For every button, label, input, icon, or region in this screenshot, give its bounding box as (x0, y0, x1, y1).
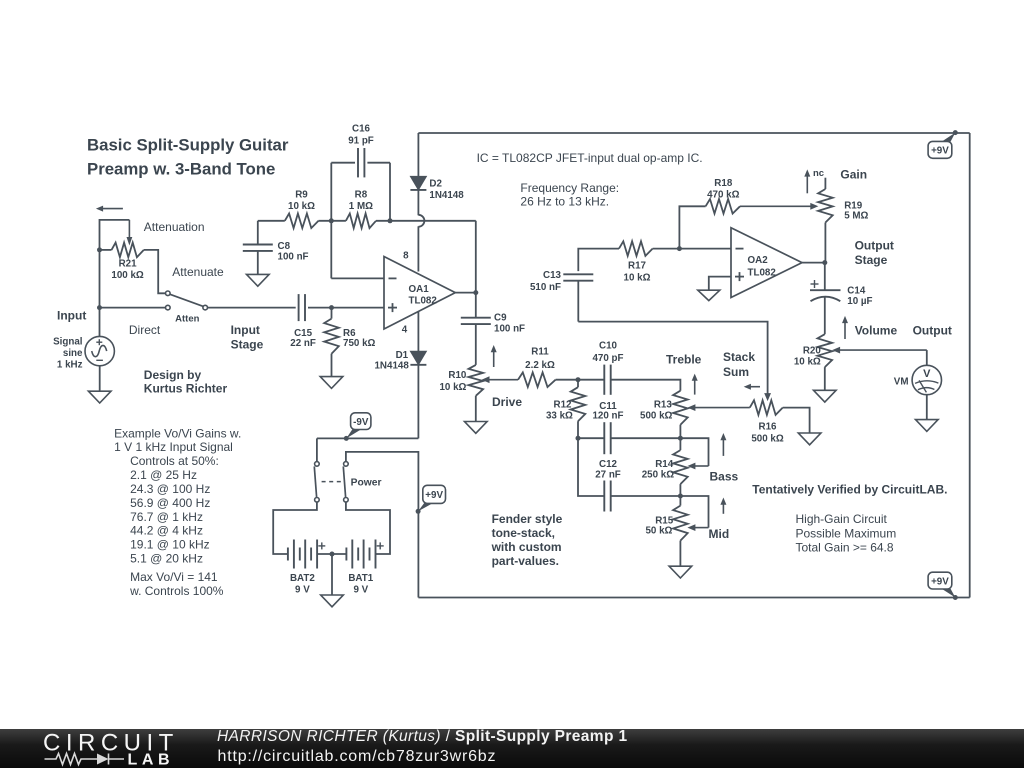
wire R21 left lead (100, 249, 112, 251)
potentiometer R21 (112, 243, 144, 258)
wire D1 cathode to -9V rail (417, 365, 419, 439)
capacitor C8 (243, 245, 273, 251)
svg-text:LAB: LAB (128, 751, 175, 768)
wire R18 left leg (679, 206, 705, 248)
label D1 (396, 350, 409, 361)
switch SW2a bottom terminal (315, 498, 320, 503)
switch SW1 blade (170, 294, 203, 306)
ground below source (88, 391, 111, 403)
potentiometer R13 (673, 391, 688, 425)
svg-text:sine: sine (63, 348, 83, 359)
svg-text:Stack: Stack (723, 350, 755, 364)
wiper arrow R21 (127, 220, 133, 246)
label R11 value 2.2 kΩ (525, 360, 555, 371)
voltmeter scale arc1 (915, 381, 938, 384)
label sine (63, 348, 83, 359)
diode D2 (410, 176, 426, 190)
label C9 value 100 nF (494, 324, 525, 335)
label fender line1 (492, 512, 563, 526)
svg-text:Kurtus Richter: Kurtus Richter (144, 381, 228, 395)
signal source plus (96, 339, 102, 345)
svg-text:470 pF: 470 pF (592, 353, 623, 364)
wire VM to ground (926, 395, 928, 420)
svg-text:91 pF: 91 pF (348, 136, 374, 147)
signal source minus (96, 359, 103, 361)
switch SW2b bottom terminal (344, 498, 349, 503)
svg-text:BAT2: BAT2 (290, 573, 315, 584)
ground below VM (916, 420, 939, 432)
wire right switch to +9V riser (346, 452, 419, 598)
label Input Stage line1 (231, 323, 260, 337)
svg-text:Output: Output (855, 238, 894, 252)
resistor R12 (571, 387, 586, 421)
op-amp OA1 triangle (384, 257, 455, 330)
wire C16 right leg (367, 163, 390, 221)
svg-text:V: V (923, 368, 931, 380)
label C8 (278, 241, 291, 252)
switch SW2b blade (343, 466, 345, 497)
resistor R11 (518, 372, 556, 387)
svg-text:R14: R14 (655, 459, 674, 470)
wire R6 top lead (331, 308, 333, 319)
svg-text:Attenuation: Attenuation (144, 220, 205, 234)
direction arrow Treble (692, 374, 698, 395)
wire D2 cathode down (417, 190, 419, 215)
label Input (57, 309, 86, 323)
wire C13 bottom leg (577, 281, 579, 322)
svg-text:10 µF: 10 µF (847, 296, 872, 307)
svg-text:D2: D2 (429, 178, 442, 189)
label R14 value 250 kΩ (642, 469, 675, 480)
label R6 (343, 328, 356, 339)
svg-text:R11: R11 (531, 347, 549, 358)
svg-text:-9V: -9V (353, 417, 369, 428)
svg-text:Input: Input (57, 309, 86, 323)
svg-text:Mid: Mid (709, 527, 730, 541)
potentiometer R10 (469, 365, 484, 396)
label example gains line1 (114, 427, 241, 441)
svg-text:+9V: +9V (425, 490, 443, 501)
ground below R6 (320, 377, 343, 389)
label Power (351, 477, 382, 488)
direction arrow Volume (842, 316, 848, 339)
battery BAT1 plus sign (377, 542, 384, 549)
label Design by (144, 368, 202, 382)
label 1 kHz (57, 360, 83, 371)
svg-text:27 nF: 27 nF (595, 469, 621, 480)
capacitor C14 curved plate (811, 297, 841, 302)
svg-text:Volume: Volume (855, 324, 898, 338)
label R18 value 470 kΩ (707, 190, 740, 201)
svg-text:R8: R8 (355, 190, 368, 201)
label BAT2 (290, 573, 315, 584)
node feedback right junction (388, 218, 393, 223)
wire R9 to C8 (257, 221, 259, 245)
wire C9 to R10 (475, 324, 477, 365)
label gain item 3 (130, 496, 210, 510)
wire into OA1 pin 8 (417, 226, 419, 271)
svg-text:OA2: OA2 (748, 255, 769, 266)
svg-text:with custom: with custom (491, 540, 562, 554)
wire source to ground (99, 366, 101, 391)
label C11 (599, 401, 617, 412)
label gain item 1 (130, 468, 197, 482)
direction arrow Stack Sum (744, 384, 760, 390)
svg-text:R13: R13 (654, 400, 673, 411)
direction arrow Drive (491, 345, 497, 367)
svg-text:R16: R16 (759, 422, 778, 433)
label Drive (492, 395, 522, 409)
svg-text:C16: C16 (352, 124, 371, 135)
wire R19 bottom lead (824, 223, 826, 263)
label R16 value 500 kΩ (751, 433, 784, 444)
label C13 (543, 270, 562, 281)
label R16 (759, 422, 778, 433)
label R12 value 33 kΩ (546, 410, 573, 421)
label controls at 50% (130, 454, 219, 468)
svg-text:9 V: 9 V (353, 585, 368, 596)
label high gain line3 (796, 540, 894, 554)
svg-text:w. Controls 100%: w. Controls 100% (129, 584, 224, 598)
svg-text:Stage: Stage (231, 337, 264, 351)
ground below R20 (814, 390, 837, 402)
label frequency range line2 (520, 195, 609, 209)
wire R14 wiper loop (680, 438, 708, 466)
svg-text:Atten: Atten (175, 313, 199, 324)
direction arrow nc (804, 169, 810, 193)
svg-text:10 kΩ: 10 kΩ (794, 356, 821, 367)
svg-text:Frequency Range:: Frequency Range: (520, 181, 619, 195)
svg-text:Power: Power (351, 477, 382, 488)
svg-text:120 nF: 120 nF (592, 410, 623, 421)
label R19 (844, 201, 863, 212)
svg-text:Design by: Design by (144, 368, 202, 382)
label R15 (655, 515, 674, 526)
ground below R10 (465, 422, 488, 434)
label C15 (294, 328, 313, 339)
svg-text:R18: R18 (714, 178, 733, 189)
label Atten (175, 313, 199, 324)
wire C16 left leg (331, 163, 355, 221)
svg-text:Basic Split-Supply Guitar: Basic Split-Supply Guitar (87, 136, 289, 155)
label R10 (448, 370, 467, 381)
svg-text:9 V: 9 V (295, 585, 310, 596)
svg-text:R17: R17 (628, 261, 647, 272)
label R6 value 750 kΩ (343, 338, 376, 349)
title text line 2 (87, 160, 275, 179)
label VM (894, 377, 909, 388)
label R21 value 100 kΩ (111, 270, 144, 281)
label nc (813, 168, 824, 179)
svg-text:C10: C10 (599, 341, 618, 352)
label high gain line1 (796, 512, 888, 526)
op-amp OA1 plus sign (388, 303, 397, 312)
wire +9V bottom rail (418, 597, 969, 599)
label D1 value 1N4148 (374, 360, 409, 371)
svg-text:TL082: TL082 (409, 296, 438, 307)
ground below R15 (669, 566, 692, 578)
node +9V mid anchor (416, 509, 421, 514)
label gain item 4 (130, 510, 203, 524)
switch SW1 throw top terminal (166, 291, 171, 296)
svg-text:10 kΩ: 10 kΩ (439, 382, 466, 393)
label IC note (477, 151, 703, 165)
label C9 (494, 313, 507, 324)
capacitor C10 (604, 365, 610, 395)
label Volume (855, 324, 898, 338)
wire right switch to BAT1 (346, 502, 390, 554)
wire C10 to R13 (611, 380, 681, 391)
wire R21 right to switch (144, 250, 166, 293)
svg-text:R20: R20 (803, 345, 822, 356)
label Output node (913, 324, 952, 338)
wire -9V to left switch (316, 438, 318, 461)
op-amp OA2 plus sign (735, 272, 744, 281)
ground below batteries (321, 595, 344, 607)
svg-text:1 MΩ: 1 MΩ (349, 201, 373, 212)
wire hop over feedback wire (418, 215, 424, 227)
label C14 (847, 286, 866, 297)
wire -9V rail (317, 437, 419, 439)
potentiometer R14 (673, 450, 688, 484)
svg-text:76.7 @ 1 kHz: 76.7 @ 1 kHz (130, 510, 203, 524)
node R21 left junction (97, 247, 102, 252)
svg-text:R12: R12 (554, 400, 573, 411)
label Mid (709, 527, 730, 541)
label C14 value 10 uF (847, 296, 872, 307)
svg-text:IC = TL082CP JFET-input dual o: IC = TL082CP JFET-input dual op-amp IC. (477, 151, 703, 165)
label Attenuation (144, 220, 205, 234)
label D2 (429, 178, 442, 189)
wiper arrow R20 to output (832, 347, 927, 354)
wire minus input of OA1 (331, 221, 384, 279)
wiper arrow R19 (740, 203, 818, 210)
wire OA2 plus to ground (709, 277, 731, 291)
svg-text:C12: C12 (599, 459, 618, 470)
label Kurtus Richter (144, 381, 228, 395)
svg-text:100 nF: 100 nF (494, 324, 525, 335)
direction arrow Bass (720, 433, 726, 456)
wire R20 to ground (824, 367, 826, 390)
voltmeter V text (923, 368, 931, 380)
svg-text:1N4148: 1N4148 (429, 190, 464, 201)
svg-text:Preamp w. 3-Band Tone: Preamp w. 3-Band Tone (87, 160, 275, 179)
wire C13 top leg (578, 249, 619, 272)
svg-text:R9: R9 (295, 190, 308, 201)
wire R8 to corner (376, 220, 476, 222)
svg-text:Signal: Signal (53, 337, 83, 348)
wire output to C9 (475, 293, 477, 318)
label C10 (599, 341, 618, 352)
voltmeter needle (919, 380, 926, 392)
net +9V callout bottom-right (928, 572, 955, 597)
label Output Stage line1 (855, 238, 894, 252)
svg-text:+9V: +9V (931, 146, 949, 157)
label OA2 (748, 255, 769, 266)
svg-text:Sum: Sum (723, 365, 749, 379)
label Sum (723, 365, 749, 379)
label R11 (531, 347, 549, 358)
wire OA2 output to C14 (824, 263, 826, 291)
wire C12 left leg (578, 438, 604, 496)
battery BAT1 (346, 540, 375, 569)
label Direct (129, 323, 161, 337)
wiper arrow R13 to R16 (687, 404, 749, 411)
svg-text:5 MΩ: 5 MΩ (844, 211, 868, 222)
signal source V1 circle (85, 336, 114, 365)
switch SW2a blade (314, 466, 316, 497)
node OA2 minus junction (677, 246, 682, 251)
svg-text:Example Vo/Vi Gains w.: Example Vo/Vi Gains w. (114, 427, 241, 441)
capacitor C14 plus plate (810, 289, 841, 291)
wire battery center to ground (331, 554, 333, 595)
pin 8 label (403, 251, 409, 262)
net +9V callout top-right (928, 133, 955, 159)
svg-text:10 kΩ: 10 kΩ (624, 272, 651, 283)
node OA1 output junction (473, 290, 478, 295)
wire switch to C15 (208, 307, 296, 309)
svg-text:500 kΩ: 500 kΩ (751, 433, 784, 444)
wire OA1 pin 4 down (417, 311, 419, 351)
wire input column (99, 250, 101, 337)
wiper arrow R10 (482, 376, 519, 383)
capacitor C12 (604, 481, 610, 512)
label BAT2 value 9 V (295, 585, 310, 596)
signal source sine (92, 345, 107, 356)
wire D2 anode from top rail (417, 133, 419, 176)
svg-text:Treble: Treble (666, 353, 702, 367)
label C13 value 510 nF (530, 282, 561, 293)
wire C14 to R20 (824, 298, 826, 335)
wire R12 bottom lead (577, 421, 579, 438)
label C15 value 22 nF (290, 338, 316, 349)
svg-text:VM: VM (894, 377, 909, 388)
wire R10 to ground (475, 396, 477, 422)
svg-text:750 kΩ: 750 kΩ (343, 338, 376, 349)
svg-text:Tentatively Verified by Circui: Tentatively Verified by CircuitLAB. (752, 483, 947, 497)
label R12 (554, 400, 573, 411)
node feedback left junction (329, 218, 334, 223)
svg-text:1N4148: 1N4148 (374, 360, 409, 371)
label C10 value 470 pF (592, 353, 623, 364)
svg-text:1 kHz: 1 kHz (57, 360, 83, 371)
label OA1 (409, 284, 430, 295)
label Signal (53, 337, 83, 348)
label C12 value 27 nF (595, 469, 621, 480)
label C16 (352, 124, 371, 135)
label Treble (666, 353, 702, 367)
label R9 (295, 190, 308, 201)
svg-text:500 kΩ: 500 kΩ (640, 410, 673, 421)
direction arrow attenuation (96, 206, 123, 212)
label R21 (119, 259, 138, 270)
label BAT1 value 9 V (353, 585, 368, 596)
wire +9V right edge (969, 133, 971, 598)
wire C8 to ground (257, 251, 259, 274)
label R18 (714, 178, 733, 189)
node +9V bottom-right anchor (953, 595, 958, 600)
wire R15 wiper loop (680, 496, 708, 528)
label D2 value 1N4148 (429, 190, 464, 201)
label Output Stage line2 (855, 253, 888, 267)
node C11 left junction (576, 436, 581, 441)
wiper arrow R16 (764, 393, 771, 401)
diode D1 (410, 351, 426, 365)
wire output down to VM (926, 350, 928, 365)
svg-text:22 nF: 22 nF (290, 338, 316, 349)
net -9V callout (346, 413, 371, 439)
resistor R6 (324, 319, 339, 354)
wire R15 to ground (679, 541, 681, 567)
svg-text:C14: C14 (847, 286, 866, 297)
label R13 (654, 400, 673, 411)
node input junction (97, 305, 102, 310)
svg-text:Bass: Bass (710, 470, 739, 484)
label fender line4 (492, 554, 559, 568)
label R10 value 10 kΩ (439, 382, 466, 393)
label OA1 value TL082 (409, 296, 438, 307)
svg-text:Attenuate: Attenuate (172, 265, 224, 279)
label Attenuate (172, 265, 224, 279)
wiper arrow R14 (687, 463, 708, 470)
label R14 (655, 459, 674, 470)
svg-text:BAT1: BAT1 (348, 573, 373, 584)
wire left switch to BAT2 (273, 502, 317, 554)
label gain item 6 (130, 538, 210, 552)
switch SW1 throw bottom terminal (166, 305, 171, 310)
wire C15 to plus input (308, 307, 384, 309)
svg-text:100 kΩ: 100 kΩ (111, 270, 144, 281)
potentiometer R16 (750, 400, 783, 415)
node battery center (330, 552, 335, 557)
label R17 value 10 kΩ (624, 272, 651, 283)
ground below C8 (247, 274, 270, 286)
label Bass (710, 470, 739, 484)
svg-text:100 nF: 100 nF (278, 252, 309, 263)
svg-text:Max Vo/Vi = 141: Max Vo/Vi = 141 (130, 570, 218, 584)
label high gain line2 (796, 526, 897, 540)
wiper arrow R15 (687, 524, 708, 531)
switch SW2b top terminal (344, 462, 349, 467)
ground below R16 (798, 433, 821, 445)
potentiometer R19 (818, 189, 833, 223)
svg-text:C8: C8 (278, 241, 291, 252)
label Stack (723, 350, 755, 364)
label C12 (599, 459, 618, 470)
label max gain line2 (129, 584, 224, 598)
capacitor C11 (604, 422, 610, 454)
svg-text:Stage: Stage (855, 253, 888, 267)
svg-text:High-Gain Circuit: High-Gain Circuit (796, 512, 888, 526)
svg-text:4: 4 (402, 325, 408, 336)
wire R21 wiper loop (100, 220, 130, 250)
resistor R9 (285, 214, 319, 229)
wire C11 right lead (611, 437, 681, 439)
capacitor C16 (358, 148, 364, 177)
wire R6 to ground (331, 354, 333, 377)
label R8 (355, 190, 368, 201)
node C11 right junction (678, 436, 683, 441)
label tentatively verified (752, 483, 947, 497)
ground at OA2 plus input (698, 290, 720, 300)
wire C12 right lead (611, 495, 681, 497)
label R8 value 1 MΩ (349, 201, 373, 212)
label R15 value 50 kΩ (645, 526, 672, 537)
potentiometer R15 (673, 506, 688, 541)
svg-text:Drive: Drive (492, 395, 522, 409)
wire R14 bottom lead (679, 484, 681, 496)
node tone stack top-left junction (576, 377, 581, 382)
